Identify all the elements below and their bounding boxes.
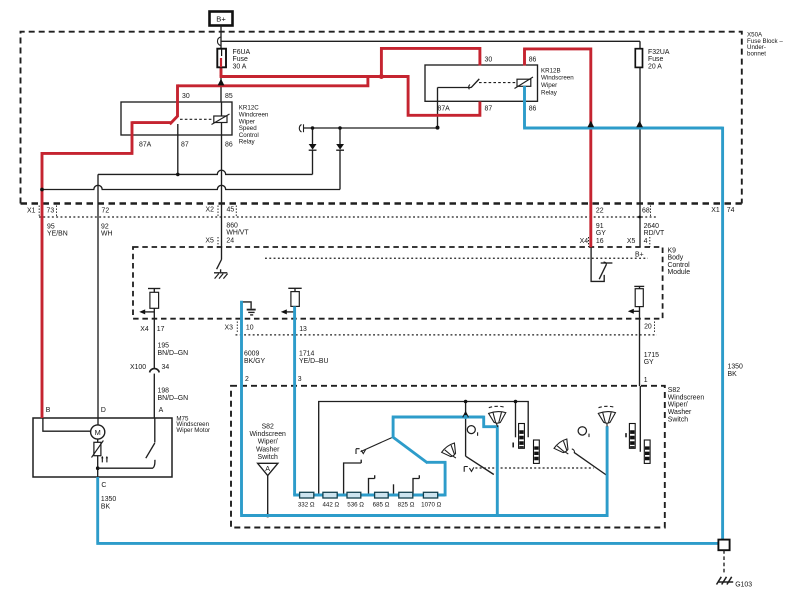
svg-text:bonnet: bonnet bbox=[747, 51, 766, 58]
svg-text:F6UA: F6UA bbox=[233, 49, 251, 56]
svg-text:73: 73 bbox=[47, 208, 55, 215]
svg-text:2: 2 bbox=[245, 376, 249, 383]
svg-text:F32UA: F32UA bbox=[648, 49, 670, 56]
svg-text:Relay: Relay bbox=[239, 139, 256, 146]
svg-text:BK/GY: BK/GY bbox=[244, 358, 265, 365]
svg-text:87A: 87A bbox=[438, 106, 451, 113]
svg-text:74: 74 bbox=[727, 207, 735, 214]
svg-text:YE/D–BU: YE/D–BU bbox=[299, 358, 329, 365]
svg-text:Windscreen: Windscreen bbox=[668, 394, 705, 401]
svg-text:X5: X5 bbox=[205, 237, 214, 244]
svg-text:B: B bbox=[46, 407, 51, 414]
svg-text:30: 30 bbox=[485, 57, 493, 64]
svg-text:X1: X1 bbox=[711, 207, 720, 214]
svg-text:A: A bbox=[159, 407, 164, 414]
svg-text:D: D bbox=[101, 407, 106, 414]
svg-text:24: 24 bbox=[226, 237, 234, 244]
svg-text:GY: GY bbox=[596, 230, 606, 237]
svg-text:1350: 1350 bbox=[101, 496, 116, 503]
svg-text:X4: X4 bbox=[580, 238, 589, 245]
svg-text:Wiper/: Wiper/ bbox=[668, 402, 688, 409]
svg-text:95: 95 bbox=[47, 223, 55, 230]
svg-text:BN/D–GN: BN/D–GN bbox=[158, 350, 189, 357]
svg-text:A: A bbox=[265, 464, 270, 473]
svg-text:442 Ω: 442 Ω bbox=[322, 502, 339, 509]
svg-text:86: 86 bbox=[225, 142, 233, 149]
svg-text:X2: X2 bbox=[206, 206, 215, 213]
svg-text:Fuse: Fuse bbox=[233, 56, 248, 63]
svg-text:Windscreen: Windscreen bbox=[250, 431, 287, 438]
svg-text:M: M bbox=[95, 428, 101, 437]
svg-text:WH/VT: WH/VT bbox=[226, 230, 249, 237]
svg-text:72: 72 bbox=[102, 208, 110, 215]
svg-text:GY: GY bbox=[644, 359, 654, 366]
svg-text:4: 4 bbox=[644, 238, 648, 245]
svg-text:X5: X5 bbox=[627, 238, 636, 245]
svg-text:20 A: 20 A bbox=[648, 63, 662, 70]
svg-text:Wiper Motor: Wiper Motor bbox=[176, 427, 210, 434]
svg-text:85: 85 bbox=[225, 93, 233, 100]
svg-text:Switch: Switch bbox=[258, 454, 278, 461]
svg-text:Fuse: Fuse bbox=[648, 56, 663, 63]
svg-text:X100: X100 bbox=[130, 364, 146, 371]
svg-text:Windscreen: Windscreen bbox=[541, 75, 574, 82]
svg-text:195: 195 bbox=[158, 342, 170, 349]
svg-text:91: 91 bbox=[596, 223, 604, 230]
svg-text:X3: X3 bbox=[225, 325, 234, 332]
svg-text:Relay: Relay bbox=[541, 89, 558, 96]
svg-text:198: 198 bbox=[158, 387, 170, 394]
svg-text:10: 10 bbox=[246, 325, 254, 332]
svg-text:KR12B: KR12B bbox=[541, 67, 561, 74]
svg-text:S82: S82 bbox=[262, 423, 274, 430]
svg-text:860: 860 bbox=[226, 222, 238, 229]
svg-text:17: 17 bbox=[157, 326, 165, 333]
svg-text:B+: B+ bbox=[216, 15, 226, 24]
svg-text:BK: BK bbox=[728, 371, 738, 378]
svg-text:C: C bbox=[101, 482, 106, 489]
svg-text:1714: 1714 bbox=[299, 351, 314, 358]
svg-text:536 Ω: 536 Ω bbox=[347, 502, 364, 509]
svg-text:Washer: Washer bbox=[668, 409, 692, 416]
svg-text:22: 22 bbox=[596, 208, 604, 215]
svg-text:87A: 87A bbox=[139, 142, 152, 149]
svg-text:B+: B+ bbox=[635, 251, 644, 258]
svg-text:Wiper/: Wiper/ bbox=[258, 439, 278, 446]
svg-text:6009: 6009 bbox=[244, 351, 259, 358]
svg-text:WH: WH bbox=[101, 231, 113, 238]
svg-text:K9: K9 bbox=[668, 248, 677, 255]
svg-text:87: 87 bbox=[485, 106, 493, 113]
svg-text:3: 3 bbox=[298, 376, 302, 383]
svg-text:BK: BK bbox=[101, 503, 111, 510]
svg-text:92: 92 bbox=[101, 223, 109, 230]
svg-text:X4: X4 bbox=[140, 326, 149, 333]
svg-text:86: 86 bbox=[529, 57, 537, 64]
svg-text:1350: 1350 bbox=[728, 364, 743, 371]
svg-text:30: 30 bbox=[182, 93, 190, 100]
svg-text:1: 1 bbox=[644, 377, 648, 384]
svg-text:RD/VT: RD/VT bbox=[644, 230, 665, 237]
svg-text:685 Ω: 685 Ω bbox=[373, 502, 390, 509]
svg-text:Body: Body bbox=[668, 255, 684, 262]
svg-text:YE/BN: YE/BN bbox=[47, 231, 68, 238]
svg-text:1070 Ω: 1070 Ω bbox=[421, 502, 441, 509]
svg-text:30 A: 30 A bbox=[233, 63, 247, 70]
svg-text:2640: 2640 bbox=[644, 223, 659, 230]
svg-text:332 Ω: 332 Ω bbox=[298, 502, 315, 509]
svg-text:68: 68 bbox=[642, 208, 650, 215]
svg-text:86: 86 bbox=[529, 106, 537, 113]
svg-text:1715: 1715 bbox=[644, 352, 659, 359]
svg-text:Washer: Washer bbox=[256, 446, 280, 453]
svg-text:Switch: Switch bbox=[668, 416, 688, 423]
svg-text:X1: X1 bbox=[27, 208, 36, 215]
svg-text:Control: Control bbox=[668, 262, 691, 269]
svg-text:Module: Module bbox=[668, 269, 691, 276]
svg-text:Wiper: Wiper bbox=[541, 82, 557, 89]
svg-text:S82: S82 bbox=[668, 387, 680, 394]
svg-text:G103: G103 bbox=[735, 582, 752, 589]
svg-text:87: 87 bbox=[181, 142, 189, 149]
svg-text:34: 34 bbox=[162, 364, 170, 371]
svg-text:20: 20 bbox=[644, 324, 652, 331]
svg-text:BN/D–GN: BN/D–GN bbox=[158, 395, 189, 402]
svg-text:13: 13 bbox=[299, 326, 307, 333]
svg-text:825 Ω: 825 Ω bbox=[398, 502, 415, 509]
svg-text:16: 16 bbox=[596, 238, 604, 245]
svg-text:45: 45 bbox=[227, 206, 235, 213]
